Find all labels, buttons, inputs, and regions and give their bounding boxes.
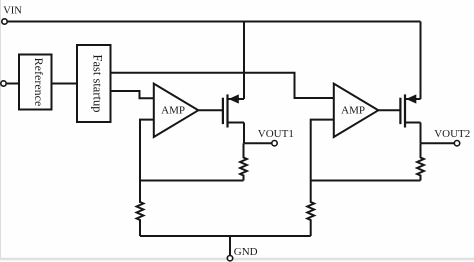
svg-text:VOUT2: VOUT2 <box>434 128 470 140</box>
svg-text:VIN: VIN <box>3 5 22 16</box>
svg-text:AMP: AMP <box>161 104 185 116</box>
svg-text:Reference: Reference <box>32 58 46 107</box>
svg-text:GND: GND <box>234 246 258 258</box>
svg-text:Fast startup: Fast startup <box>91 55 105 113</box>
svg-text:VOUT1: VOUT1 <box>258 128 294 140</box>
svg-text:AMP: AMP <box>341 104 365 116</box>
